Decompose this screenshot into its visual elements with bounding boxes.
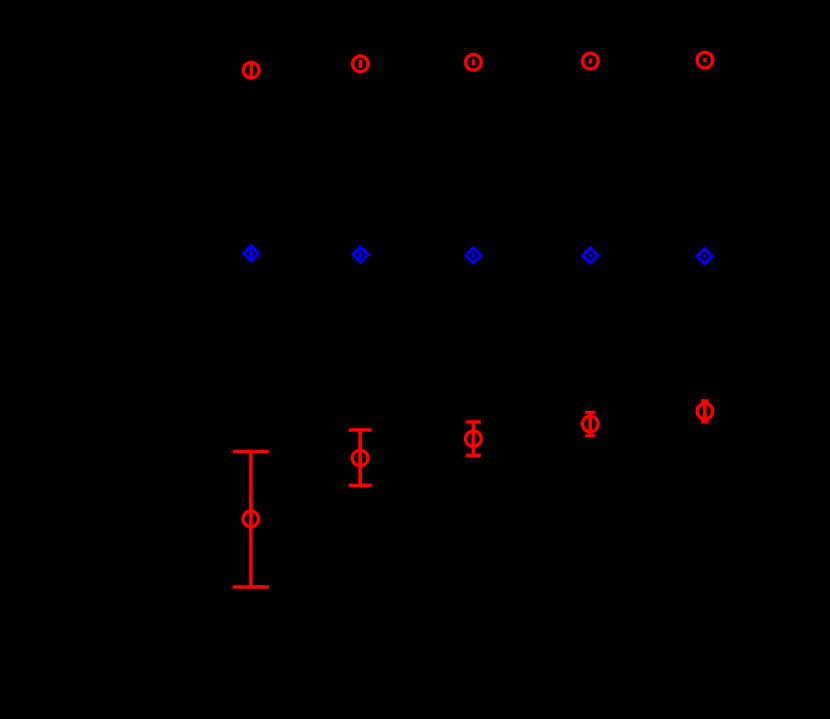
- red series A (top row): errorbar 1: [243, 62, 259, 78]
- red series B: errorbar 5 with caps: [697, 401, 713, 422]
- red series A: errorbar 3: [466, 55, 482, 71]
- red series A: errorbar 2: [353, 56, 369, 72]
- red series B: errorbar 3 with caps: [466, 422, 482, 455]
- blue series (middle row): diamond 1: [244, 246, 259, 261]
- red series B: errorbar 2 with caps: [349, 430, 372, 485]
- blue series: diamond 4: [583, 248, 598, 263]
- red series A: errorbar 5: [697, 52, 713, 68]
- red series B: errorbar 4 with caps: [583, 412, 599, 435]
- blue series: diamond 3: [466, 248, 481, 263]
- blue series: diamond 5: [697, 249, 712, 264]
- red series B (bottom): errorbar 1 with caps: [233, 451, 269, 587]
- blue series: diamond 2: [353, 247, 368, 262]
- red series A: errorbar 4: [583, 53, 599, 69]
